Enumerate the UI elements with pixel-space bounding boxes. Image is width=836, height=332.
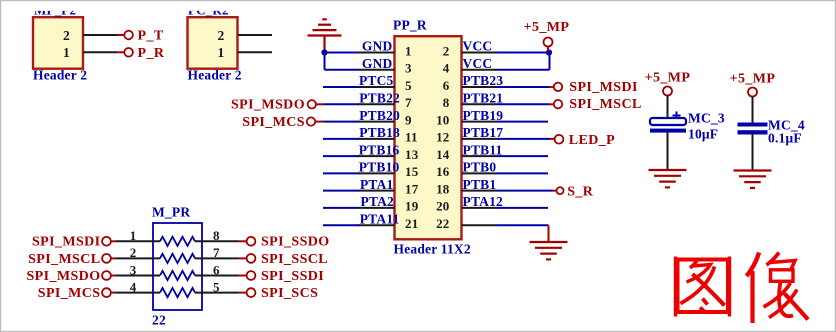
svg-text:PTB21: PTB21 — [463, 91, 504, 106]
svg-text:7: 7 — [405, 95, 412, 110]
svg-text:12: 12 — [436, 130, 449, 145]
svg-text:+5_MP: +5_MP — [524, 20, 570, 35]
svg-text:6: 6 — [443, 78, 450, 93]
svg-text:18: 18 — [436, 181, 450, 196]
svg-text:PP_R: PP_R — [393, 18, 427, 33]
svg-text:LED_P: LED_P — [569, 133, 615, 148]
svg-text:S_R: S_R — [567, 184, 594, 199]
svg-text:Header 2: Header 2 — [33, 68, 87, 83]
svg-text:PTB1: PTB1 — [463, 177, 497, 192]
svg-text:P_T: P_T — [138, 29, 164, 44]
svg-text:PTA11: PTA11 — [360, 211, 400, 226]
svg-text:M_PR: M_PR — [152, 204, 190, 219]
svg-text:9: 9 — [405, 112, 412, 127]
svg-text:MC_3: MC_3 — [688, 111, 725, 126]
svg-text:5: 5 — [213, 279, 220, 294]
svg-text:+5_MP: +5_MP — [645, 70, 691, 85]
svg-text:19: 19 — [405, 199, 419, 214]
svg-text:10μF: 10μF — [688, 127, 718, 142]
svg-text:11: 11 — [405, 130, 418, 145]
svg-text:SPI_MCS: SPI_MCS — [38, 286, 101, 301]
svg-text:PTC5: PTC5 — [359, 73, 394, 88]
svg-text:VCC: VCC — [463, 39, 493, 54]
svg-text:GND: GND — [362, 39, 393, 54]
svg-text:8: 8 — [213, 228, 220, 243]
svg-text:21: 21 — [405, 216, 418, 231]
svg-text:8: 8 — [443, 95, 450, 110]
svg-text:3: 3 — [130, 262, 137, 277]
svg-text:SPI_MSCL: SPI_MSCL — [569, 97, 641, 112]
svg-text:14: 14 — [436, 147, 450, 162]
svg-text:+5_MP: +5_MP — [730, 71, 776, 86]
svg-text:SPI_MCS: SPI_MCS — [242, 115, 305, 130]
svg-text:PTB20: PTB20 — [359, 108, 400, 123]
svg-text:13: 13 — [405, 147, 419, 162]
svg-text:PTB19: PTB19 — [463, 108, 504, 123]
svg-text:PTA12: PTA12 — [463, 194, 504, 209]
svg-text:0.1μF: 0.1μF — [768, 131, 802, 146]
svg-text:PTB18: PTB18 — [359, 125, 400, 140]
svg-text:VCC: VCC — [463, 56, 493, 71]
svg-text:SPI_SSDI: SPI_SSDI — [261, 269, 324, 284]
svg-text:SPI_SCS: SPI_SCS — [261, 286, 318, 301]
svg-text:22: 22 — [436, 216, 449, 231]
svg-text:PTB0: PTB0 — [463, 160, 497, 175]
svg-text:SPI_MSDO: SPI_MSDO — [231, 98, 305, 113]
svg-text:SPI_SSDO: SPI_SSDO — [261, 235, 330, 250]
svg-text:22: 22 — [152, 313, 166, 328]
svg-text:2: 2 — [130, 245, 137, 260]
svg-text:PTB23: PTB23 — [463, 73, 504, 88]
svg-text:SPI_SSCL: SPI_SSCL — [261, 252, 328, 267]
svg-text:SPI_MSDI: SPI_MSDI — [569, 80, 638, 95]
svg-text:GND: GND — [362, 56, 393, 71]
svg-text:10: 10 — [436, 112, 449, 127]
svg-text:1: 1 — [63, 45, 70, 60]
svg-text:Header 11X2: Header 11X2 — [394, 242, 471, 257]
svg-text:SPI_MSCL: SPI_MSCL — [28, 252, 100, 267]
svg-text:PTB16: PTB16 — [359, 142, 400, 157]
svg-text:1: 1 — [405, 43, 412, 58]
svg-text:2: 2 — [443, 43, 450, 58]
svg-text:15: 15 — [405, 164, 419, 179]
svg-text:6: 6 — [213, 262, 220, 277]
svg-text:7: 7 — [213, 245, 220, 260]
svg-text:Header 2: Header 2 — [188, 68, 242, 83]
svg-text:1: 1 — [130, 228, 137, 243]
svg-text:PTA2: PTA2 — [360, 194, 394, 209]
svg-text:5: 5 — [405, 78, 412, 93]
svg-text:PTB10: PTB10 — [359, 160, 400, 175]
svg-text:4: 4 — [130, 279, 137, 294]
svg-text:17: 17 — [405, 181, 419, 196]
svg-text:2: 2 — [63, 28, 70, 43]
svg-text:PTA1: PTA1 — [360, 177, 394, 192]
svg-text:1: 1 — [218, 45, 225, 60]
svg-text:PTB17: PTB17 — [463, 125, 504, 140]
svg-text:SPI_MSDO: SPI_MSDO — [27, 269, 101, 284]
svg-text:2: 2 — [218, 28, 225, 43]
svg-text:20: 20 — [436, 199, 449, 214]
svg-text:PTB22: PTB22 — [359, 91, 400, 106]
svg-text:PTB11: PTB11 — [463, 142, 503, 157]
svg-text:3: 3 — [405, 61, 412, 76]
svg-text:4: 4 — [443, 61, 450, 76]
svg-text:SPI_MSDI: SPI_MSDI — [32, 235, 101, 250]
svg-text:P_R: P_R — [138, 46, 165, 61]
svg-text:16: 16 — [436, 164, 450, 179]
